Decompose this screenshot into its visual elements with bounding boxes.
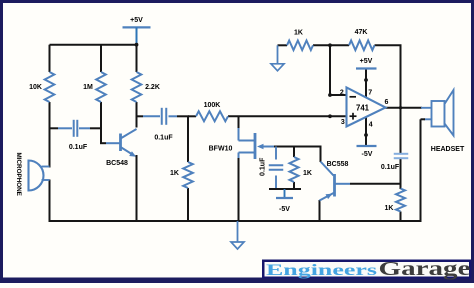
svg-text:BFW10: BFW10 — [209, 146, 233, 153]
svg-text:1K: 1K — [170, 170, 179, 177]
svg-text:-5V: -5V — [279, 206, 290, 213]
svg-text:47K: 47K — [355, 29, 368, 36]
svg-text:2.2K: 2.2K — [145, 84, 160, 91]
svg-text:1M: 1M — [83, 84, 93, 91]
svg-text:Engineers: Engineers — [266, 262, 377, 279]
svg-text:MICROPHONE: MICROPHONE — [15, 153, 22, 196]
svg-text:741: 741 — [356, 104, 370, 113]
svg-text:HEADSET: HEADSET — [431, 146, 465, 153]
svg-text:0.1uF: 0.1uF — [69, 144, 88, 151]
svg-text:-5V: -5V — [362, 151, 373, 158]
svg-text:10K: 10K — [29, 84, 42, 91]
svg-text:1K: 1K — [294, 29, 303, 36]
svg-text:7: 7 — [368, 90, 372, 97]
svg-text:100K: 100K — [204, 102, 221, 109]
svg-text:Garage: Garage — [379, 258, 471, 280]
svg-text:1K: 1K — [303, 170, 312, 177]
svg-text:0.1uF: 0.1uF — [260, 157, 267, 176]
svg-text:4: 4 — [369, 122, 373, 129]
svg-text:+5V: +5V — [130, 17, 143, 24]
svg-text:0.1uF: 0.1uF — [381, 164, 400, 171]
svg-text:+5V: +5V — [360, 58, 373, 65]
svg-text:2: 2 — [340, 90, 344, 97]
svg-text:6: 6 — [385, 99, 389, 106]
svg-text:0.1uF: 0.1uF — [154, 135, 173, 142]
svg-text:3: 3 — [341, 119, 345, 126]
svg-text:BC548: BC548 — [106, 160, 128, 167]
svg-text:1K: 1K — [385, 205, 394, 212]
svg-text:BC558: BC558 — [327, 161, 349, 168]
